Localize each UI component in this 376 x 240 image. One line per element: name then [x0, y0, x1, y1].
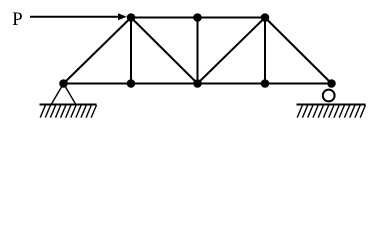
joint B4	[261, 79, 270, 88]
pin support ground line	[40, 104, 97, 106]
joint B5	[327, 79, 336, 88]
diagonal T1-B3	[131, 18, 198, 84]
diagonal B3-T3	[198, 18, 266, 84]
top chord T1-T3	[131, 17, 265, 19]
pin support triangle at B1	[52, 84, 76, 105]
load arrowhead	[118, 13, 127, 20]
diagonal T3-B5	[265, 18, 332, 84]
joint T2	[193, 13, 202, 22]
joint B2	[127, 79, 136, 88]
joint B3	[193, 79, 202, 88]
vertical T1-B2	[130, 18, 132, 84]
joint B1	[59, 79, 68, 88]
bottom chord B1-B5	[64, 83, 332, 85]
diagonal B1-T1	[64, 18, 132, 84]
joint T1	[127, 13, 136, 22]
roller support circle at B5	[323, 90, 335, 102]
svg-text:P: P	[12, 9, 23, 30]
roller support ground line	[297, 104, 366, 106]
load arrow shaft	[30, 16, 120, 18]
pin support hatching	[40, 105, 96, 118]
vertical T3-B4	[264, 18, 266, 84]
joint T3	[261, 13, 270, 22]
vertical T2-B3	[197, 18, 199, 84]
roller support hatching	[297, 105, 365, 118]
